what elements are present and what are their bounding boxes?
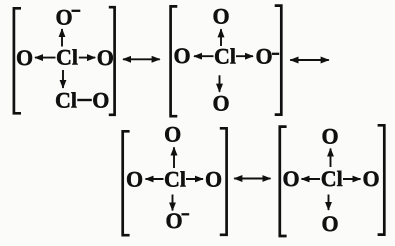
structure 4 bond arrow Cl to right O: [343, 178, 361, 180]
svg-text:Cl: Cl: [214, 44, 236, 69]
resonance arrow C (between structure 3 and 4): [234, 178, 270, 180]
svg-text:Cl: Cl: [55, 87, 77, 112]
structure 2 bond arrow Cl to top O (up): [220, 29, 222, 46]
svg-text:O: O: [173, 43, 190, 68]
structure 4 bond arrow Cl to top O (up): [330, 149, 332, 168]
structure 1 atom O- (top): [55, 5, 72, 30]
structure 3 charge minus on bottom O: [182, 213, 190, 215]
svg-text:O: O: [165, 208, 182, 233]
structure 1 bottom bond dash Cl-O: [77, 99, 92, 101]
svg-text:O: O: [212, 3, 229, 28]
structure 1 atom O (bottom group): [92, 87, 109, 112]
structure 2 atom O (bottom): [212, 90, 229, 115]
structure 3 bond arrow Cl to top O (up): [173, 147, 175, 168]
structure 1 left bracket: [14, 8, 21, 113]
svg-text:O: O: [16, 45, 33, 70]
svg-text:Cl: Cl: [164, 166, 186, 191]
structure 4 atom O (bottom): [321, 211, 338, 236]
structure 3 atom Cl (center): [164, 166, 186, 191]
structure 4 atom Cl (center): [321, 166, 343, 191]
structure 1 right bracket: [109, 7, 115, 115]
svg-text:O: O: [362, 166, 379, 191]
structure 4 atom O (top): [321, 123, 338, 148]
structure 2 bond arrow Cl to right O-: [236, 55, 253, 57]
svg-text:O: O: [212, 90, 229, 115]
structure 2 atom Cl (center): [214, 44, 236, 69]
structure 3 bond arrow Cl to right O: [186, 178, 203, 180]
structure 1 atom Cl (center): [56, 44, 78, 69]
svg-text:O: O: [321, 123, 338, 148]
structure 2 atom O (top): [212, 3, 229, 28]
structure 1 atom O (left): [16, 45, 33, 70]
structure 1 bond arrow Cl to top O- (up): [61, 29, 63, 47]
structure 1 bond arrow Cl to left O: [35, 57, 56, 59]
structure 2 atom O- (right): [255, 43, 272, 68]
structure 1 atom O (right): [97, 45, 114, 70]
svg-text:O: O: [282, 166, 299, 191]
structure 4 bond arrow Cl to left O: [302, 178, 321, 180]
structure 3 right bracket: [220, 128, 227, 235]
structure 3 atom O (top): [164, 122, 181, 147]
structure 2 right bracket: [275, 6, 282, 115]
structure 3 bond arrow Cl to left O: [146, 178, 164, 180]
structure 2 bond arrow Cl to bottom O (down): [219, 75, 221, 92]
structure 3 atom O- (bottom): [165, 208, 182, 233]
resonance arrow B (after structure 2): [290, 59, 329, 61]
structure 4 right bracket: [378, 125, 385, 234]
structure 1 bond arrow Cl down to Cl-O: [62, 70, 64, 88]
svg-text:O: O: [126, 166, 143, 191]
structure 1 charge minus on top O: [72, 10, 81, 12]
resonance arrow A (between structure 1 and 2): [123, 58, 160, 60]
structure 4 bond arrow Cl to bottom O (down): [328, 195, 330, 211]
structure 4 left bracket: [280, 127, 287, 236]
svg-text:O: O: [205, 166, 222, 191]
svg-text:Cl: Cl: [56, 44, 78, 69]
svg-text:O: O: [164, 122, 181, 147]
svg-text:O: O: [55, 5, 72, 30]
structure 3 atom O (right): [205, 166, 222, 191]
structure 2 bond arrow Cl to left O: [194, 55, 214, 57]
structure 2 left bracket: [171, 6, 178, 116]
structure 4 atom O (left): [282, 166, 299, 191]
structure 4 atom O (right): [362, 166, 379, 191]
structure 1 atom Cl (bottom group): [55, 87, 77, 112]
svg-text:O: O: [92, 87, 109, 112]
svg-text:O: O: [321, 211, 338, 236]
svg-text:O: O: [255, 43, 272, 68]
structure 1 bond arrow Cl to right O: [79, 57, 95, 59]
svg-text:Cl: Cl: [321, 166, 343, 191]
structure 3 atom O (left): [126, 166, 143, 191]
structure 2 atom O (left): [173, 43, 190, 68]
structure 2 charge minus on right O: [272, 53, 279, 55]
svg-text:O: O: [97, 45, 114, 70]
structure 3 bond arrow Cl to bottom O- (down): [172, 195, 174, 211]
structure 3 left bracket: [123, 131, 130, 235]
